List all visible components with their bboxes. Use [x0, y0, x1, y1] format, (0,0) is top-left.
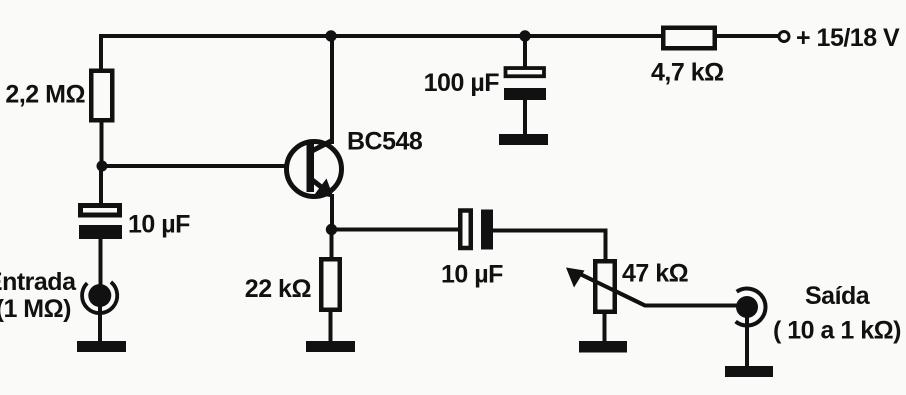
wire output cap to pot: [493, 231, 606, 260]
svg-text:Saída: Saída: [805, 282, 871, 310]
svg-text:Entrada: Entrada: [0, 268, 77, 296]
svg-text:10 µF: 10 µF: [128, 210, 190, 238]
potentiometer R4 47 kΩ body: [595, 261, 615, 312]
resistor R1 2,2 MΩ: [91, 71, 112, 121]
wire 100uF drop: [523, 36, 527, 67]
wire 4.7k to supply terminal: [717, 34, 778, 38]
wire wiper to output jack: [579, 274, 737, 306]
svg-text:4,7 kΩ: 4,7 kΩ: [651, 59, 724, 87]
wire output jack to ground: [745, 316, 749, 371]
potentiometer R4 wiper arrow: [566, 268, 645, 306]
wire 22k to ground: [329, 312, 333, 346]
output jack (Saída): [736, 289, 766, 326]
node A top rail / collector: [325, 30, 336, 41]
capacitor C3 10 µF (output): [460, 210, 493, 250]
wire emitter node to 22k: [330, 229, 334, 257]
wire base node to input cap: [99, 166, 103, 204]
node B top rail / 100uF: [519, 30, 530, 41]
wire emitter to node: [330, 196, 334, 229]
ground (output jack): [725, 366, 773, 377]
ground (22k): [306, 341, 355, 352]
svg-text:100 µF: 100 µF: [424, 69, 500, 97]
svg-text:10 µF: 10 µF: [441, 260, 503, 288]
svg-text:22 kΩ: 22 kΩ: [245, 275, 312, 303]
node C base: [97, 161, 108, 172]
svg-text:( 10 a 1 kΩ): ( 10 a 1 kΩ): [773, 317, 901, 345]
resistor R3 22 kΩ: [321, 259, 340, 310]
svg-text:(1 MΩ): (1 MΩ): [0, 295, 71, 323]
svg-text:+ 15/18 V: + 15/18 V: [796, 24, 900, 52]
transistor Q1 BC548: [287, 140, 342, 198]
wire 100uF to ground: [523, 99, 527, 140]
wire pot to ground: [603, 314, 607, 346]
ground (input jack): [77, 341, 126, 352]
wire top rail: [101, 36, 661, 69]
supply terminal + 15/18 V: [779, 32, 789, 42]
svg-text:2,2 MΩ: 2,2 MΩ: [5, 81, 85, 109]
resistor R2 4,7 kΩ: [663, 28, 715, 49]
ground (100uF): [499, 134, 548, 145]
svg-text:BC548: BC548: [347, 128, 423, 156]
svg-text:47 kΩ: 47 kΩ: [622, 260, 689, 288]
input jack (Entrada): [82, 282, 117, 313]
wire input jack to ground: [98, 305, 102, 346]
capacitor C1 10 µF (input): [79, 206, 122, 240]
node D emitter: [326, 224, 337, 235]
capacitor C2 100 µF: [504, 68, 546, 100]
wire input cap to jack: [99, 238, 103, 288]
wire collector drop: [330, 36, 334, 142]
wire 2.2M to base node: [100, 122, 104, 166]
wire base: [102, 164, 307, 168]
wire emitter node to output cap: [332, 228, 458, 232]
ground (pot): [579, 341, 627, 353]
